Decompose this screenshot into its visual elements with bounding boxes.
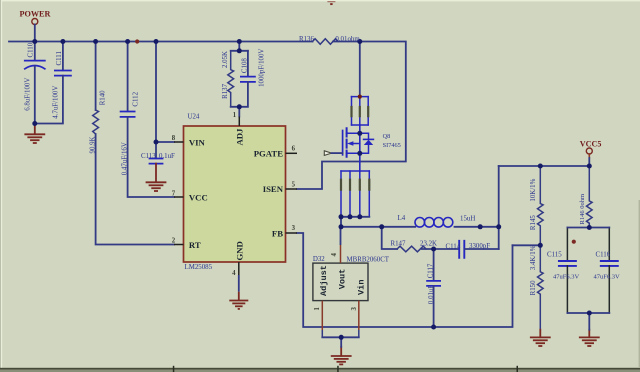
resistor R147 [397,246,426,252]
no-ERC dot on bus [135,39,139,43]
svg-text:90.9K: 90.9K [90,136,97,153]
wire output rail [499,165,590,167]
wire top bus left of R136 [9,41,313,43]
svg-text:C117: C117 [428,263,435,278]
pin 2 stub [174,244,184,246]
svg-text:Vout: Vout [338,269,348,290]
svg-text:0.01ohm: 0.01ohm [335,36,360,43]
node rail/VCC5/R146 [587,164,592,169]
svg-text:5: 5 [292,181,296,188]
wire SW node [341,217,415,227]
node ADJ rail [237,104,242,109]
svg-text:GND: GND [235,241,245,260]
svg-text:3300pF: 3300pF [469,243,490,250]
wire pin4 to ground [238,275,240,292]
svg-text:R146 0ohm: R146 0ohm [579,194,586,225]
node Q8 source [357,151,362,156]
svg-text:VIN: VIN [189,137,206,147]
svg-text:4: 4 [232,270,236,277]
capacitor C112 [127,42,129,112]
svg-text:C110: C110 [28,42,35,57]
border tick 1 [173,366,175,372]
node bus/VIN drop [154,39,159,44]
svg-text:U24: U24 [188,114,200,121]
resistor R150 [538,245,544,329]
svg-text:10K/1%: 10K/1% [530,178,537,201]
wire D32 pad net [322,336,359,338]
node R145/R150/FB [538,243,543,248]
no-ERC dot near C115 [572,240,576,244]
border tick 2 [337,366,339,372]
svg-text:1: 1 [314,307,321,311]
node bus/POWER [32,39,37,44]
ground below U24 pin 4 [229,292,248,309]
svg-text:3: 3 [351,307,358,311]
power port POWER [32,19,38,25]
pin 7 stub [174,196,184,198]
node C113/VIN [154,140,159,145]
sheet right edge [639,200,640,368]
node bus/C111 [60,39,65,44]
svg-text:FB: FB [272,228,283,238]
node D32 pads gnd [339,335,344,340]
node bus/R137 C108 [237,39,242,44]
no-ERC dot sense top [358,95,362,99]
node out riser [496,224,501,229]
capacitor C115 [566,228,568,261]
node bus/R140 [93,39,98,44]
svg-text:SI7465: SI7465 [383,142,401,149]
svg-text:PGATE: PGATE [254,149,283,159]
node R137 C108 top rail [237,48,242,53]
node SW/D32 [339,224,344,229]
svg-text:4.7uF/100V: 4.7uF/100V [53,86,60,119]
node L4 out [478,224,483,229]
svg-text:C114: C114 [446,243,461,250]
svg-text:47uF6.3V: 47uF6.3V [553,273,579,280]
svg-text:Vin: Vin [356,280,366,295]
border tick 3 [517,366,519,372]
node sense bottom b [348,214,353,219]
svg-text:7: 7 [172,191,176,198]
svg-text:Q8: Q8 [383,133,391,140]
resistor R137 [231,42,248,51]
svg-text:Adjust: Adjust [319,265,329,296]
inductor L4 [415,218,453,228]
capacitor C114 [459,241,464,258]
svg-text:6: 6 [292,146,296,153]
capacitor C113 [155,142,157,158]
svg-text:0.1uF: 0.1uF [159,153,175,160]
wire L4 to output riser [455,226,499,228]
svg-text:C113: C113 [141,153,156,160]
wire output riser [498,166,500,249]
sheet top bevel [0,0,640,1]
svg-text:POWER: POWER [20,10,51,19]
svg-text:R136: R136 [299,36,314,43]
capacitor C110 [34,42,36,61]
ground cut off at top edge [327,1,335,4]
wire bus drop to sense resistors [359,42,361,97]
wire RC branch drop [382,227,397,249]
wire R145 junction to FB riser [513,244,541,246]
svg-text:4: 4 [331,253,338,257]
svg-text:C108: C108 [242,58,249,73]
D32 pin 1 [321,301,323,330]
pin 3 stub [286,232,298,234]
node R146/cap rail [587,225,592,230]
ground below C113 [147,164,166,191]
wire top bus right of R136 to ISEN loop [297,42,406,190]
svg-text:ADJ: ADJ [235,128,245,146]
svg-text:R150: R150 [530,280,537,295]
svg-text:1: 1 [233,112,237,119]
svg-text:3.4K/1%: 3.4K/1% [530,245,537,270]
pin 4 stub [238,262,240,275]
pin 5 stub [286,188,298,190]
IC U24 LM25085 body [184,126,286,262]
svg-text:1000pF/100V: 1000pF/100V [259,49,266,87]
node cap rail gnd [587,311,592,316]
svg-text:ISEN: ISEN [263,184,284,194]
capacitor C117 [433,249,435,281]
sheet bottom border [0,368,640,370]
svg-text:L4: L4 [398,215,406,222]
svg-text:C115: C115 [547,252,562,259]
node sense bottom a [339,214,344,219]
svg-text:VCC5: VCC5 [580,140,602,149]
svg-text:VCC: VCC [189,192,208,202]
capacitor C116 [608,228,610,261]
capacitor C108 [247,51,249,77]
svg-text:MBRB2060CT: MBRB2060CT [347,257,390,264]
sense resistor group bottom (4 parallel) [341,171,369,217]
svg-text:15uH: 15uH [460,215,475,222]
resistor R146 [587,166,593,228]
ground below C110 [25,124,44,144]
resistor R145 [538,166,544,245]
svg-text:C112: C112 [133,91,140,106]
power port VCC5 [586,148,592,154]
svg-text:R140: R140 [100,90,107,105]
diode D32 body [313,263,368,301]
svg-text:6.8uF/100V: 6.8uF/100V [25,78,32,111]
svg-text:47uF6.3V: 47uF6.3V [594,273,620,280]
svg-text:R137: R137 [222,83,229,98]
node Q8 drain [357,131,362,136]
wire FB net [297,233,513,327]
pin 8 stub [174,141,184,143]
node rail/R145 [538,164,543,169]
svg-text:2: 2 [172,238,176,245]
svg-text:3: 3 [292,225,296,232]
node R147/C114/C117 [431,247,436,252]
PGATE arrow [324,151,331,156]
ground below cap bank [580,330,599,346]
resistor R140 [95,42,97,111]
wire R147 to C114 [422,248,459,250]
wire ADJ stub [238,107,240,117]
D32 pin 4 (top) [340,227,342,245]
node C117/FB [431,325,436,330]
svg-text:23.2K: 23.2K [420,240,437,247]
svg-text:0.47uF/16V: 0.47uF/16V [122,142,129,175]
node C110 C111 gnd [32,121,37,126]
node SW/RC [379,224,384,229]
wire bus to VIN [156,42,174,143]
capacitor C111 [62,42,64,71]
wire cap bank rails [567,228,609,314]
svg-text:D32: D32 [313,256,325,263]
D32 pin 3 [358,301,360,330]
svg-text:RT: RT [189,240,201,250]
ground below D32 [332,347,351,365]
svg-text:0.01uF: 0.01uF [428,285,435,305]
node bus/C112 [125,39,130,44]
ground below R150 [531,330,550,346]
sense resistor group top (3 parallel) [352,97,369,125]
pin 1 stub [238,117,240,127]
node bus/sense drop [357,39,362,44]
transistor Q8 [359,125,361,171]
resistor R136 [313,39,339,45]
svg-text:C116: C116 [596,252,611,259]
Q8 body diode [364,138,374,140]
svg-text:2.05K: 2.05K [222,51,229,68]
svg-text:LM25085: LM25085 [185,264,213,271]
svg-text:R145: R145 [530,215,537,230]
node sense bottom c [357,214,362,219]
pin 6 stub [286,152,298,154]
svg-text:R147: R147 [391,240,406,247]
Q8 body arrow [347,141,353,146]
svg-text:8: 8 [172,135,176,142]
svg-text:C111: C111 [56,51,63,66]
